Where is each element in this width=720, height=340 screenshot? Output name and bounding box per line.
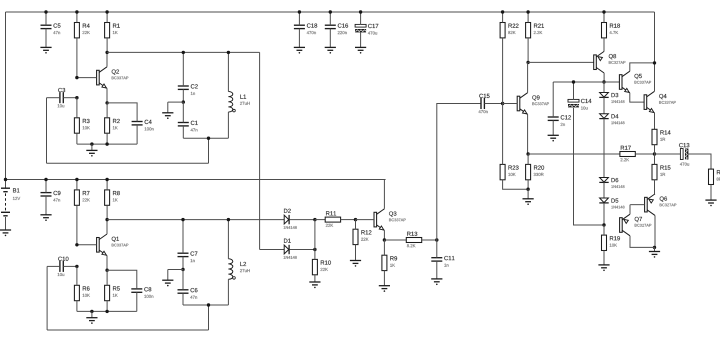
battery B1 12V bbox=[1, 187, 10, 189]
wire R22 top pin bbox=[502, 12, 504, 23]
wire R19 bottom pin bbox=[603, 251, 605, 265]
wire output node to C13 bbox=[655, 153, 681, 155]
resistor R6 10K bbox=[74, 285, 79, 300]
wire R6 top pin bbox=[76, 266, 78, 285]
ground below C5 bbox=[40, 46, 51, 48]
capacitor C4 100n bbox=[132, 121, 143, 123]
transistor Q2 BC337AP bbox=[97, 70, 100, 85]
wire C3 left plate to feedback bbox=[47, 97, 60, 99]
wire L2 bottom pin bbox=[227, 279, 229, 305]
resistor R7 22K bbox=[74, 190, 79, 205]
resistor R14 1R bbox=[652, 129, 657, 144]
wire C12 top pin bbox=[552, 82, 554, 117]
wire R20 bottom pin bbox=[527, 180, 529, 189]
wire right frame from top rail down to Q4 collector bbox=[654, 12, 656, 91]
wire R10 top pin bbox=[314, 250, 316, 260]
node Q2 collector wire to tank top bbox=[107, 51, 260, 53]
wire C9 top pin bbox=[45, 180, 47, 193]
transistor Q6 BC327AP bbox=[645, 197, 648, 212]
diode D4 1N4148 bbox=[600, 114, 609, 119]
transistor Q7 BC327AP bbox=[620, 218, 623, 233]
transistor Q8 BC327AP bbox=[594, 55, 597, 70]
wire R3 bottom pin bbox=[76, 133, 78, 144]
capacitor C3 10u bbox=[59, 92, 61, 103]
resistor R12 22K bbox=[353, 229, 358, 244]
wire C11 bottom pin bbox=[436, 261, 438, 279]
transistor Q4 BC337AP bbox=[644, 95, 647, 110]
wire R15 top pin bbox=[654, 154, 656, 164]
wire left frame from top rail down to battery bbox=[5, 12, 7, 188]
ground below C12 bbox=[548, 134, 559, 136]
wire Q9 collector up bbox=[527, 62, 529, 92]
wire top osc output drop bbox=[259, 52, 261, 249]
wire R12 bottom pin bbox=[355, 245, 357, 261]
wire C6 top pin bbox=[182, 270, 184, 290]
wire C17 top pin bbox=[360, 12, 362, 24]
wire Q1 stage ground rail bbox=[77, 310, 137, 312]
capacitor C1 47n bbox=[178, 122, 189, 124]
transistor Q1 BC337AP bbox=[97, 238, 100, 253]
diode D2 1N4148 bbox=[284, 215, 289, 224]
resistor R15 1R bbox=[652, 164, 657, 179]
wire Q2 collector up to node bbox=[106, 52, 108, 66]
wire C16 bottom pin bbox=[329, 29, 331, 48]
wire feedback riser to tank bottom bbox=[208, 138, 210, 163]
wire R22 bottom pin bbox=[502, 38, 504, 104]
capacitor C18 470n bbox=[294, 24, 305, 26]
capacitor C12 2n bbox=[548, 116, 559, 118]
wire Q3 emitter down bbox=[383, 230, 385, 240]
wire D1 cathode to node bbox=[290, 249, 315, 251]
resistor R13 8.2K bbox=[406, 238, 421, 243]
ground below R12 bbox=[350, 260, 361, 262]
wire R17 to output node bbox=[635, 153, 654, 155]
resistor R19 10K bbox=[602, 235, 607, 250]
wire Q8 collector down bbox=[603, 73, 605, 82]
resistor R11 22K bbox=[325, 217, 340, 222]
wire tap ground stem bottom bbox=[167, 270, 169, 281]
wire feedback left vertical bottom osc bbox=[46, 266, 48, 330]
ground below C16 bbox=[325, 46, 336, 48]
wire Q4 emitter down to R14 bbox=[654, 113, 656, 129]
ground below B1 bbox=[0, 229, 11, 231]
wire C4 bottom pin bbox=[136, 125, 138, 144]
wire R9 bottom pin bbox=[383, 271, 385, 286]
ground of output stage bbox=[649, 251, 660, 253]
capacitor C14 10u electrolytic bbox=[568, 99, 579, 102]
resistor R22 82K bbox=[500, 23, 505, 38]
wire Q9 emitter down bbox=[527, 114, 529, 154]
wire C11 top pin bbox=[436, 240, 438, 258]
resistor R9 1K bbox=[382, 255, 387, 270]
wire Q7 collector to ground node bbox=[630, 236, 655, 248]
wire C1 top pin bbox=[182, 102, 184, 122]
wire C10 left plate to feedback bbox=[47, 265, 60, 267]
ground of Q2 stage bbox=[86, 149, 97, 151]
resistor R3 10K bbox=[74, 118, 79, 133]
wire R12 top pin bbox=[355, 220, 357, 230]
wire R18 bottom pin to Q8 emitter bbox=[603, 38, 605, 52]
wire R21 top pin bbox=[527, 12, 529, 23]
diode D5 1N4148 bbox=[600, 198, 609, 203]
ground below R9 bbox=[379, 285, 390, 287]
wire D4 to D6 bbox=[603, 119, 605, 178]
wire R4 bottom pin to Q2 base node bbox=[76, 38, 78, 78]
wire R15 bottom pin to Q6 bbox=[654, 180, 656, 194]
ground below C17 bbox=[355, 46, 366, 48]
wire R20 top pin bbox=[527, 154, 529, 164]
resistor R4 22K bbox=[74, 23, 79, 38]
wire R2 bottom pin bbox=[106, 133, 108, 144]
capacitor C11 1n bbox=[431, 257, 442, 259]
wire diode summing node vertical bbox=[314, 220, 316, 250]
wire C1 bottom pin bbox=[182, 126, 184, 138]
wire Q1 collector up bbox=[106, 220, 108, 234]
resistor R1 1K bbox=[105, 23, 110, 38]
wire Q5 emitter to Q4 base bbox=[630, 93, 644, 102]
wire Q2 stage ground rail bbox=[77, 143, 137, 145]
wire R21 bottom pin bbox=[527, 38, 529, 63]
wire C6 bottom pin bbox=[182, 293, 184, 305]
wire Q7 emitter up to Q6 base bbox=[629, 205, 631, 215]
resistor R10 22K bbox=[312, 259, 317, 274]
resistor R17 2.2K bbox=[620, 152, 635, 157]
diode D1 1N4148 bbox=[284, 245, 289, 254]
wire R18 top pin bbox=[603, 12, 605, 23]
ground below C18 bbox=[294, 46, 305, 48]
capacitor C6 47n bbox=[178, 289, 189, 291]
wire R3 top pin bbox=[76, 98, 78, 118]
wire R8 top pin bbox=[106, 180, 108, 190]
wire R9 top pin bbox=[383, 240, 385, 255]
resistor R20 330R bbox=[526, 164, 531, 179]
wire D6 to D5 bbox=[603, 182, 605, 198]
wire C17 bottom pin bbox=[360, 32, 362, 47]
ground below R16 bbox=[705, 199, 716, 201]
wire R20 ground stem bbox=[527, 189, 529, 199]
wire Q1 collector to bottom tank and D2 bbox=[107, 219, 284, 221]
wire C7 top pin bbox=[182, 220, 184, 254]
ground below R10 bbox=[309, 281, 320, 283]
ground below R19 bbox=[598, 264, 609, 266]
wire Q6 collector down to ground node bbox=[654, 216, 656, 248]
wire R23 bottom pin bbox=[503, 180, 528, 189]
wire mixer output riser bbox=[437, 104, 481, 241]
wire ground stem bottom bbox=[91, 311, 93, 317]
wire B1 bottom pin bbox=[5, 217, 7, 230]
wire feedback riser bottom tank bbox=[208, 305, 210, 330]
wire C7 bottom pin bbox=[182, 257, 184, 270]
wire R5 bottom pin bbox=[106, 301, 108, 312]
wire tap ground stem bbox=[167, 102, 169, 113]
wire Q6 base from Q7 bbox=[630, 204, 644, 206]
wire C3 right plate to R4/R3 node bbox=[63, 97, 77, 99]
capacitor C7 1n bbox=[178, 252, 189, 254]
wire R23 top pin bbox=[502, 104, 504, 165]
wire R11 to R12 node bbox=[341, 219, 356, 221]
wire C13 to speaker load bbox=[688, 154, 711, 169]
diode D6 1N4148 bbox=[600, 178, 609, 183]
wire C4 top pin from Q2 emitter node bbox=[107, 103, 137, 122]
wire R10 bottom pin bbox=[314, 275, 316, 282]
wire R6 bottom pin bbox=[76, 301, 78, 312]
wire feedback left vertical bbox=[46, 98, 48, 164]
resistor R21 2.2K bbox=[526, 23, 531, 38]
ground below C9 bbox=[40, 214, 51, 216]
capacitor C2 1n bbox=[178, 85, 189, 87]
wire D2 cathode to node bbox=[290, 219, 315, 221]
wire feedback bottom horizontal bbox=[47, 162, 209, 164]
wire R7 bottom pin to Q1 base node bbox=[76, 205, 78, 245]
wire ground stem bbox=[91, 144, 93, 150]
wire C5 bottom pin bbox=[45, 29, 47, 48]
wire R4 top pin bbox=[76, 12, 78, 23]
wire C18 bottom pin bbox=[298, 29, 300, 48]
wire bottom tank bottom bbox=[183, 304, 228, 306]
wire feedback bottom horizontal bottom osc bbox=[47, 329, 208, 331]
wire L2 top pin bbox=[227, 220, 229, 259]
wire C15 to Q9 base node bbox=[484, 103, 502, 105]
wire Q9 collector to Q8 base bbox=[528, 61, 594, 63]
wire +12V battery rail bbox=[6, 179, 386, 181]
ground of Q1 stage bbox=[86, 317, 97, 319]
ground bottom tank tap bbox=[162, 279, 173, 281]
wire R16 bottom pin bbox=[710, 185, 712, 201]
wire C8 top pin from Q1 emitter node bbox=[107, 270, 137, 289]
wire L1 top pin bbox=[227, 52, 229, 91]
wire C18 top pin bbox=[298, 12, 300, 25]
wire bottom tank center tap bbox=[168, 269, 183, 271]
wire C2 bottom pin bbox=[182, 89, 184, 102]
wire Q2 base bbox=[77, 77, 97, 79]
wire R13 to C11 node bbox=[422, 239, 437, 241]
wire D3 top pin bbox=[603, 82, 605, 93]
wire output ground stem bbox=[654, 247, 656, 251]
diode D3 1N4148 bbox=[600, 93, 609, 98]
inductor L1 27uH bbox=[228, 92, 232, 113]
wire D1 feed from top osc bbox=[260, 249, 285, 251]
ground tank tap bbox=[162, 112, 173, 114]
wire Q3 base bbox=[356, 219, 375, 221]
wire R1 top pin bbox=[106, 12, 108, 23]
wire node to R11 bbox=[315, 219, 325, 221]
transistor Q9 BC337AP bbox=[517, 96, 520, 111]
wire Q5 collector up and right bbox=[630, 63, 655, 71]
wire Q2 emitter down bbox=[106, 88, 108, 103]
wire L1 bottom pin bbox=[227, 112, 229, 138]
wire C12 bottom pin bbox=[552, 120, 554, 135]
capacitor C13 470u electrolytic bbox=[680, 149, 683, 160]
ground below C11 bbox=[431, 278, 442, 280]
wire tank bottom bbox=[183, 137, 228, 139]
wire tank center tap bbox=[168, 101, 184, 103]
wire R7 top pin bbox=[76, 180, 78, 190]
resistor R23 10K bbox=[500, 164, 505, 179]
wire C14 bottom pin down to Q7 base wire bbox=[574, 108, 605, 225]
wire top +12V rail bbox=[6, 11, 655, 13]
wire C9 bottom pin bbox=[45, 196, 47, 215]
resistor R2 1K bbox=[105, 118, 110, 133]
inductor L2 27uH bbox=[228, 259, 232, 280]
capacitor C10 10u bbox=[59, 261, 61, 272]
capacitor C8 100n bbox=[131, 288, 142, 290]
wire Q1 emitter down bbox=[106, 256, 108, 271]
wire bias node horizontal bbox=[553, 81, 619, 83]
wire R1 bottom pin to Q2 collector node bbox=[106, 38, 108, 53]
wire Q3 emitter to R13 bbox=[384, 239, 406, 241]
capacitor C16 220n bbox=[325, 24, 336, 26]
capacitor C17 470u electrolytic bbox=[355, 24, 366, 27]
wire C14 top pin bbox=[573, 82, 575, 99]
wire C8 bottom pin bbox=[136, 292, 138, 311]
ground below R20 bbox=[523, 198, 534, 200]
wire R14 bottom pin bbox=[654, 145, 656, 154]
capacitor C9 47n bbox=[41, 192, 52, 194]
wire C5 top pin bbox=[45, 12, 47, 25]
resistor R5 1K bbox=[105, 285, 110, 300]
transistor Q5 BC337AP bbox=[619, 75, 622, 90]
transistor Q3 BC337AP bbox=[374, 212, 377, 227]
resistor R16 8R speaker load bbox=[709, 169, 714, 184]
resistor R8 1K bbox=[105, 190, 110, 205]
wire C2 top pin bbox=[182, 52, 184, 86]
wire driver node to R17 bbox=[528, 153, 620, 155]
wire R8 bottom pin bbox=[106, 205, 108, 219]
capacitor C5 bbox=[41, 24, 52, 26]
wire D5 bottom pin bbox=[603, 203, 605, 225]
wire Q3 collector to +12V rail bbox=[383, 180, 385, 209]
wire C10 right plate bbox=[63, 265, 77, 267]
wire C16 top pin bbox=[329, 12, 331, 25]
wire D3 to D4 bbox=[603, 97, 605, 113]
wire Q1 base bbox=[77, 244, 97, 246]
resistor R18 4.7K bbox=[602, 23, 607, 38]
wire R5 top pin bbox=[106, 270, 108, 285]
capacitor C15 470n bbox=[480, 98, 482, 109]
wire Q9 base bbox=[503, 103, 518, 105]
wire R2 top pin bbox=[106, 103, 108, 118]
wire R19 top pin bbox=[603, 225, 605, 235]
